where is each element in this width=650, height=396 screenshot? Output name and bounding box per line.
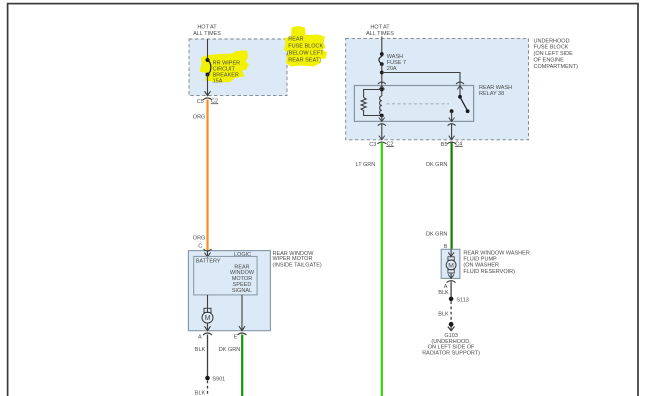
svg-text:DK GRN: DK GRN [426, 232, 447, 238]
svg-text:COMPARTMENT): COMPARTMENT) [534, 64, 579, 70]
svg-text:(ON LEFT SIDE: (ON LEFT SIDE [534, 51, 574, 57]
svg-text:A: A [198, 334, 202, 340]
svg-text:BLK: BLK [438, 290, 449, 296]
svg-text:M: M [205, 315, 211, 322]
svg-text:HOT AT: HOT AT [197, 24, 217, 30]
svg-text:(INSIDE TAILGATE): (INSIDE TAILGATE) [273, 262, 322, 268]
svg-text:(ON WASHER: (ON WASHER [463, 263, 499, 269]
svg-text:FUSE BLOCK: FUSE BLOCK [288, 43, 323, 49]
svg-text:UNDERHOOD: UNDERHOOD [534, 38, 570, 44]
svg-text:ON LEFT SIDE OF: ON LEFT SIDE OF [428, 345, 475, 351]
svg-text:FUSE 7: FUSE 7 [387, 60, 406, 66]
svg-text:C3: C3 [369, 142, 376, 148]
svg-text:REAR WASH: REAR WASH [479, 85, 512, 91]
svg-text:OF ENGINE: OF ENGINE [534, 57, 565, 63]
svg-text:BLK: BLK [438, 312, 449, 318]
svg-text:REAR SEAT): REAR SEAT) [288, 58, 321, 64]
svg-text:ALL TIMES: ALL TIMES [193, 31, 221, 37]
svg-text:M: M [448, 262, 454, 269]
svg-text:20A: 20A [387, 66, 397, 72]
svg-text:DK GRN: DK GRN [426, 162, 447, 168]
svg-text:HOT AT: HOT AT [370, 24, 390, 30]
svg-text:FLUID PUMP: FLUID PUMP [463, 257, 497, 263]
svg-text:S901: S901 [212, 376, 225, 382]
svg-text:E: E [234, 334, 238, 340]
svg-text:ORG: ORG [193, 114, 206, 120]
svg-text:WASH: WASH [387, 54, 403, 60]
svg-text:ALL TIMES: ALL TIMES [366, 31, 394, 37]
svg-text:FUSE BLOCK: FUSE BLOCK [534, 45, 569, 51]
svg-text:S113: S113 [456, 297, 468, 303]
svg-text:RELAY 38: RELAY 38 [479, 91, 504, 97]
svg-text:FLUID RESERVOIR): FLUID RESERVOIR) [463, 269, 515, 275]
svg-text:REAR: REAR [288, 37, 303, 43]
svg-text:RADIATOR SUPPORT): RADIATOR SUPPORT) [422, 351, 480, 357]
svg-text:BLK: BLK [195, 391, 206, 396]
svg-text:15A: 15A [213, 78, 223, 84]
svg-text:DK GRN: DK GRN [219, 347, 240, 353]
svg-text:BATTERY: BATTERY [196, 258, 221, 264]
svg-text:WIPER MOTOR: WIPER MOTOR [273, 256, 313, 262]
svg-text:LT GRN: LT GRN [356, 162, 376, 168]
svg-text:SIGNAL: SIGNAL [232, 288, 252, 294]
svg-text:(BELOW LEFT: (BELOW LEFT [287, 51, 324, 57]
svg-text:C: C [198, 243, 202, 249]
svg-text:C5: C5 [197, 99, 204, 105]
svg-text:BLK: BLK [195, 347, 206, 353]
svg-text:LOGIC: LOGIC [234, 252, 251, 258]
svg-text:ORG: ORG [193, 235, 206, 241]
svg-text:B5: B5 [441, 142, 448, 148]
